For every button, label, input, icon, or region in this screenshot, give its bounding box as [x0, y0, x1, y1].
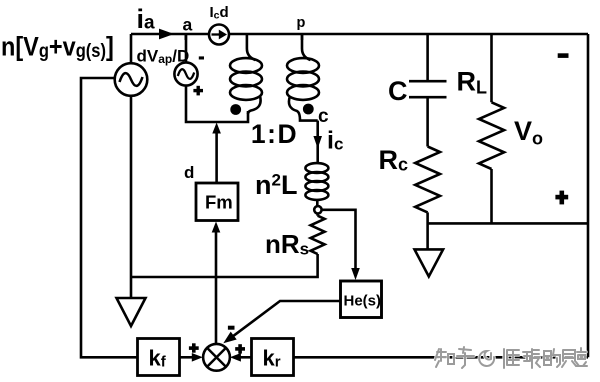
label minus at summer — [228, 326, 235, 330]
ground G2 — [415, 249, 444, 276]
arrow d into loop — [212, 123, 221, 134]
transformer secondary polarity dot — [303, 104, 314, 115]
wire left feedback (source left terminal to kf input) — [81, 78, 138, 357]
summing junction — [203, 344, 230, 371]
node a tick — [185, 34, 188, 40]
transformer secondary coil — [302, 34, 311, 60]
arrow into Fm bottom — [212, 222, 221, 233]
arrow into He(s) top — [351, 268, 360, 280]
wire He(s) sense tap — [322, 210, 356, 276]
wire RL bottom lead — [490, 169, 493, 223]
svg-text:He(s): He(s) — [344, 293, 382, 310]
watermark 知乎 @僵硬的贝壳 — [435, 347, 587, 368]
wire right border — [587, 34, 590, 357]
block kf — [138, 339, 180, 376]
arrow kr into summer — [230, 353, 241, 362]
wire kr to summer — [238, 356, 252, 359]
resistor Rc — [415, 147, 440, 213]
wire top bus — [131, 33, 588, 36]
label plus of V2 — [193, 89, 203, 92]
inductor n2L — [305, 163, 328, 173]
svg-text:1:D: 1:D — [251, 119, 298, 149]
node p tick — [301, 34, 304, 40]
wire source Vg bottom lead down to ground — [130, 96, 133, 298]
label plus at summer right — [235, 347, 245, 351]
wire lower bus to right border — [428, 222, 588, 225]
arrow kf into summer — [192, 353, 203, 362]
capacitor C — [409, 81, 447, 97]
wire He(s) output to summer — [232, 301, 341, 337]
arrow into summer from He(s) — [223, 332, 236, 344]
source n[Vg+vg(s)] V1 — [115, 63, 148, 96]
wire nRs bottom to left bus — [131, 254, 318, 277]
transformer primary polarity dot — [230, 104, 241, 115]
svg-text:p: p — [297, 15, 306, 31]
svg-text:Fm: Fm — [205, 192, 233, 213]
wire summer to Fm — [215, 231, 218, 344]
resistor nRs — [311, 214, 325, 255]
svg-text:C: C — [388, 76, 408, 106]
block Fm — [196, 183, 238, 221]
node between n2L and nRs — [314, 206, 321, 213]
label minus of V2 — [199, 56, 204, 59]
wire C branch top lead — [426, 34, 429, 80]
wire Rc bottom junction — [426, 212, 429, 249]
current source Icd — [209, 25, 229, 45]
label plus at summer left — [189, 346, 199, 350]
svg-text:c: c — [318, 106, 329, 127]
wire RL branch top lead — [490, 34, 493, 102]
wire primary loop bottom — [186, 86, 248, 122]
wire C to Rc — [426, 99, 429, 147]
wire bottom bus (kr output to right border) — [294, 356, 589, 359]
transformer primary coil — [247, 34, 256, 60]
label plus output — [555, 195, 568, 200]
svg-text:a: a — [183, 15, 193, 35]
wire kf to summer — [180, 356, 195, 359]
block He(s) — [341, 281, 382, 318]
wire source Vg top lead — [130, 34, 133, 64]
wire node a branch down — [185, 34, 188, 63]
svg-text:d: d — [184, 163, 194, 182]
svg-text:Icd: Icd — [210, 4, 229, 22]
label minus output — [558, 53, 569, 58]
source dVap/D V2 — [174, 62, 197, 85]
wire ic branch — [316, 121, 319, 162]
wire Fm output up to primary loop — [215, 131, 218, 183]
resistor RL — [479, 102, 504, 169]
arrow ic down — [313, 136, 322, 149]
ground G1 — [117, 298, 146, 326]
arrow ia on top bus — [159, 29, 174, 40]
block kr — [252, 339, 294, 376]
